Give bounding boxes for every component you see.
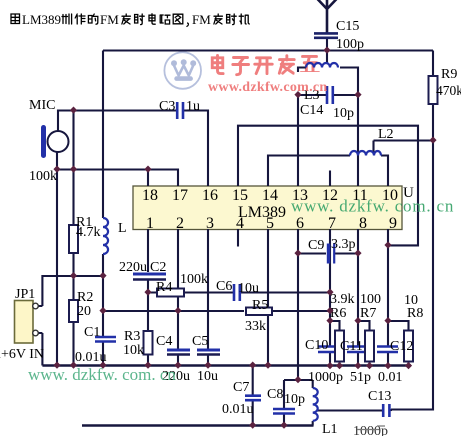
- node gnd R7: [366, 362, 373, 369]
- resistor R3: [144, 331, 153, 355]
- capacitor C14: [327, 86, 333, 104]
- svg-text:www. dzkfw. com. cn: www. dzkfw. com. cn: [291, 197, 454, 216]
- wire R4 C6 row: [148, 291, 330, 293]
- wire pin 5 column: [267, 229, 269, 366]
- svg-text:C13: C13: [368, 389, 391, 404]
- node R5 pin7: [326, 307, 333, 314]
- wire C9 row: [298, 252, 358, 254]
- wire antenna to L3: [326, 38, 328, 65]
- node JP1 rail: [99, 272, 106, 279]
- svg-text:FM: FM: [192, 12, 211, 27]
- watermark red text: [212, 55, 318, 74]
- svg-text:10u: 10u: [238, 281, 259, 296]
- svg-text:C12: C12: [390, 339, 413, 354]
- svg-text:8: 8: [359, 215, 367, 232]
- svg-text:51p: 51p: [350, 370, 371, 385]
- node pin2 R5: [174, 307, 181, 314]
- node bottom C8: [280, 422, 287, 429]
- wire pin 4 stub: [237, 229, 239, 247]
- capacitor C1: [95, 337, 116, 342]
- capacitor C10: [318, 347, 339, 353]
- resistor R7: [365, 331, 374, 362]
- pin numbers top row: [142, 187, 398, 204]
- inductor L: [103, 218, 108, 254]
- node gnd C12: [384, 362, 391, 369]
- capacitor C2: [133, 274, 166, 280]
- node 100k R1: [70, 166, 77, 173]
- wire L2 tap to right rail: [374, 141, 434, 153]
- node gnd C7: [249, 362, 256, 369]
- resistor R5: [246, 308, 272, 316]
- svg-text:C14: C14: [300, 103, 323, 118]
- node antenna rail: [323, 47, 330, 54]
- svg-text:C10: C10: [305, 338, 328, 353]
- svg-text:220u: 220u: [119, 260, 147, 275]
- wire pin 12 stub: [329, 171, 331, 187]
- svg-text:C2: C2: [150, 260, 166, 275]
- svg-text:100k: 100k: [29, 169, 57, 184]
- node gnd mic: [53, 362, 60, 369]
- svg-text:0.01: 0.01: [378, 370, 403, 385]
- wire R1 R2 column: [72, 111, 74, 366]
- svg-text:R6: R6: [330, 306, 346, 321]
- node pin8 R7: [354, 317, 361, 324]
- svg-text:L: L: [118, 221, 127, 236]
- svg-text:16: 16: [202, 187, 218, 204]
- node gnd R3: [144, 362, 151, 369]
- wire bottom rail: [82, 424, 314, 426]
- resistor R4: [157, 289, 184, 297]
- node C14 left: [294, 91, 301, 98]
- watermark logo circle: [164, 52, 201, 89]
- svg-text:R8: R8: [407, 306, 423, 321]
- svg-text:14: 14: [262, 187, 278, 204]
- node C6 pin7: [326, 289, 333, 296]
- wire L3 right lead and down: [340, 68, 358, 187]
- wire L2 right lead to pin 10: [381, 156, 388, 187]
- IC U1 LM389 body: [133, 186, 402, 230]
- wire pin 6 column: [297, 229, 299, 380]
- wire pin 15 loop to pin 9: [238, 126, 418, 246]
- wire L1 top lead: [312, 380, 314, 388]
- svg-text:L1: L1: [322, 422, 338, 436]
- svg-text:100k: 100k: [180, 272, 208, 287]
- node pin9 loop: [384, 241, 391, 248]
- node gnd pin5: [264, 362, 271, 369]
- wire top rail: [103, 49, 433, 51]
- node C9 pin8: [354, 250, 361, 257]
- wire pin 2 column C4: [177, 229, 179, 366]
- node bottom C7: [249, 422, 256, 429]
- svg-text:15: 15: [232, 187, 248, 204]
- capacitor C13: [383, 404, 389, 417]
- svg-text:R7: R7: [360, 306, 376, 321]
- wire R5 row: [103, 310, 330, 312]
- svg-text:C5: C5: [192, 334, 208, 349]
- capacitor C8: [273, 409, 295, 414]
- wire JP1 pin leads: [38, 306, 42, 366]
- svg-text:C3: C3: [159, 99, 175, 114]
- svg-text:0.01u: 0.01u: [222, 402, 254, 417]
- node pin6 C8 L1: [294, 376, 301, 383]
- node pin18: [144, 166, 151, 173]
- svg-text:C8: C8: [267, 387, 283, 402]
- svg-text:LM389: LM389: [238, 204, 286, 221]
- capacitor C4: [167, 350, 190, 355]
- resistor R2: [69, 300, 78, 322]
- capacitor C9: [329, 244, 335, 264]
- svg-text:3.9k: 3.9k: [330, 292, 355, 307]
- capacitor C15: [314, 33, 338, 37]
- inductor L2: [350, 151, 381, 156]
- wire R7 branch: [358, 321, 370, 366]
- wire L3 left lead and down to pin 13: [298, 68, 306, 187]
- svg-text:R9: R9: [441, 67, 457, 82]
- wire C14 right: [334, 94, 359, 96]
- svg-text:100p: 100p: [336, 37, 364, 52]
- node gnd C5: [204, 362, 211, 369]
- capacitor C3: [177, 102, 183, 119]
- wire mic top to C3: [58, 111, 176, 132]
- svg-text:LM389: LM389: [22, 12, 61, 27]
- wire C7 column: [252, 366, 254, 426]
- node gnd R8: [405, 362, 412, 369]
- wire pin 3 column C5: [207, 229, 209, 366]
- wire C14 left: [298, 94, 326, 96]
- node gnd R6: [336, 362, 343, 369]
- wire C13 right: [390, 409, 393, 411]
- svg-text:470k: 470k: [436, 83, 461, 98]
- wire R8 branch: [388, 321, 409, 366]
- svg-text:C4: C4: [156, 334, 172, 349]
- node pin7 R6: [326, 317, 333, 324]
- wire mic bottom: [56, 152, 58, 366]
- node gnd C1: [99, 362, 106, 369]
- title text: [11, 12, 249, 27]
- svg-text:20: 20: [77, 304, 91, 319]
- wire JP1 plus feed: [42, 276, 103, 306]
- capacitor C11: [347, 347, 368, 353]
- resistor R8: [404, 331, 413, 362]
- node gnd C10: [326, 362, 333, 369]
- svg-text:R4: R4: [156, 280, 172, 295]
- svg-text:10p: 10p: [284, 392, 305, 407]
- wire pin 1 column: [147, 229, 149, 366]
- svg-text:MIC: MIC: [29, 98, 55, 113]
- svg-text:4.7k: 4.7k: [76, 225, 101, 240]
- svg-text:9: 9: [389, 215, 397, 232]
- svg-text:C15: C15: [336, 19, 359, 34]
- wire pin 14 to L2 left: [268, 156, 350, 187]
- capacitor C12: [377, 347, 398, 353]
- node rail R5 left: [99, 307, 106, 314]
- wire L1 tap to C13: [318, 409, 383, 411]
- capacitor C5: [197, 350, 220, 355]
- svg-text:L2: L2: [378, 127, 394, 142]
- pin numbers bottom row: [146, 215, 397, 232]
- wire pin6 to C8 L1 node: [284, 379, 313, 381]
- svg-text:R5: R5: [252, 298, 268, 313]
- svg-text:C7: C7: [233, 380, 249, 395]
- svg-text:33k: 33k: [245, 319, 266, 334]
- svg-text:R3: R3: [124, 329, 140, 344]
- node pin9 R8: [384, 317, 391, 324]
- svg-text:10p: 10p: [333, 106, 354, 121]
- node C14 right: [354, 91, 361, 98]
- wire right rail upper: [432, 51, 434, 77]
- svg-text:100: 100: [360, 292, 381, 307]
- wire L1 bottom lead: [312, 421, 314, 426]
- svg-text:C11: C11: [340, 339, 363, 354]
- node mic top: [70, 107, 77, 114]
- wire R6 branch: [330, 321, 340, 366]
- svg-text:C1: C1: [84, 325, 100, 340]
- svg-text:2+6V IN: 2+6V IN: [0, 347, 44, 362]
- node gnd R2: [70, 362, 77, 369]
- wire pin 9 column C12: [387, 229, 389, 366]
- svg-text:R2: R2: [77, 290, 93, 305]
- inductor L3: [306, 63, 338, 68]
- antenna: [317, 0, 338, 33]
- svg-text:C6: C6: [216, 279, 232, 294]
- svg-text:10k: 10k: [123, 343, 144, 358]
- resistor R6: [335, 331, 344, 362]
- svg-text:www. dzkfw. com. cn: www. dzkfw. com. cn: [28, 365, 176, 384]
- resistor R9: [429, 76, 438, 104]
- node gnd C11: [354, 362, 361, 369]
- wire pin 7 column C10: [329, 229, 331, 366]
- capacitor C6: [234, 284, 240, 301]
- node C9 pin6: [294, 250, 301, 257]
- wire 100k node: [57, 170, 178, 187]
- svg-text:3.3p: 3.3p: [331, 237, 356, 252]
- wire C3 to pin 16: [183, 111, 209, 187]
- wire pin 8 column C11: [357, 229, 359, 366]
- svg-text:C9: C9: [308, 238, 324, 253]
- wire left rail upper: [102, 51, 104, 219]
- svg-text:www.dzkfw.com.cn: www.dzkfw.com.cn: [208, 80, 328, 95]
- microphone MIC: [41, 125, 69, 158]
- capacitor C7: [245, 396, 261, 401]
- resistor R1: [69, 225, 78, 253]
- svg-text:1000p: 1000p: [308, 370, 343, 385]
- node L2 tap rail: [429, 137, 436, 144]
- wire left rail lower with C1: [102, 254, 104, 366]
- label L3: [295, 72, 322, 103]
- svg-text:18: 18: [142, 187, 158, 204]
- svg-text:10u: 10u: [197, 369, 218, 384]
- wire pin 18 drop: [147, 170, 149, 187]
- node mic bottom: [53, 166, 60, 173]
- wire ground rail: [42, 364, 411, 366]
- connector JP1: [15, 301, 39, 344]
- wire right rail R9 to C13 corner: [391, 104, 433, 410]
- svg-text:1u: 1u: [186, 99, 200, 114]
- svg-text:17: 17: [172, 187, 188, 204]
- node gnd C4: [174, 362, 181, 369]
- node C2 R4: [144, 289, 151, 296]
- svg-text:JP1: JP1: [15, 287, 35, 302]
- wire C8 column: [283, 380, 285, 426]
- inductor L1: [313, 388, 318, 421]
- node JP1 R2: [70, 272, 77, 279]
- svg-text:FM: FM: [100, 12, 119, 27]
